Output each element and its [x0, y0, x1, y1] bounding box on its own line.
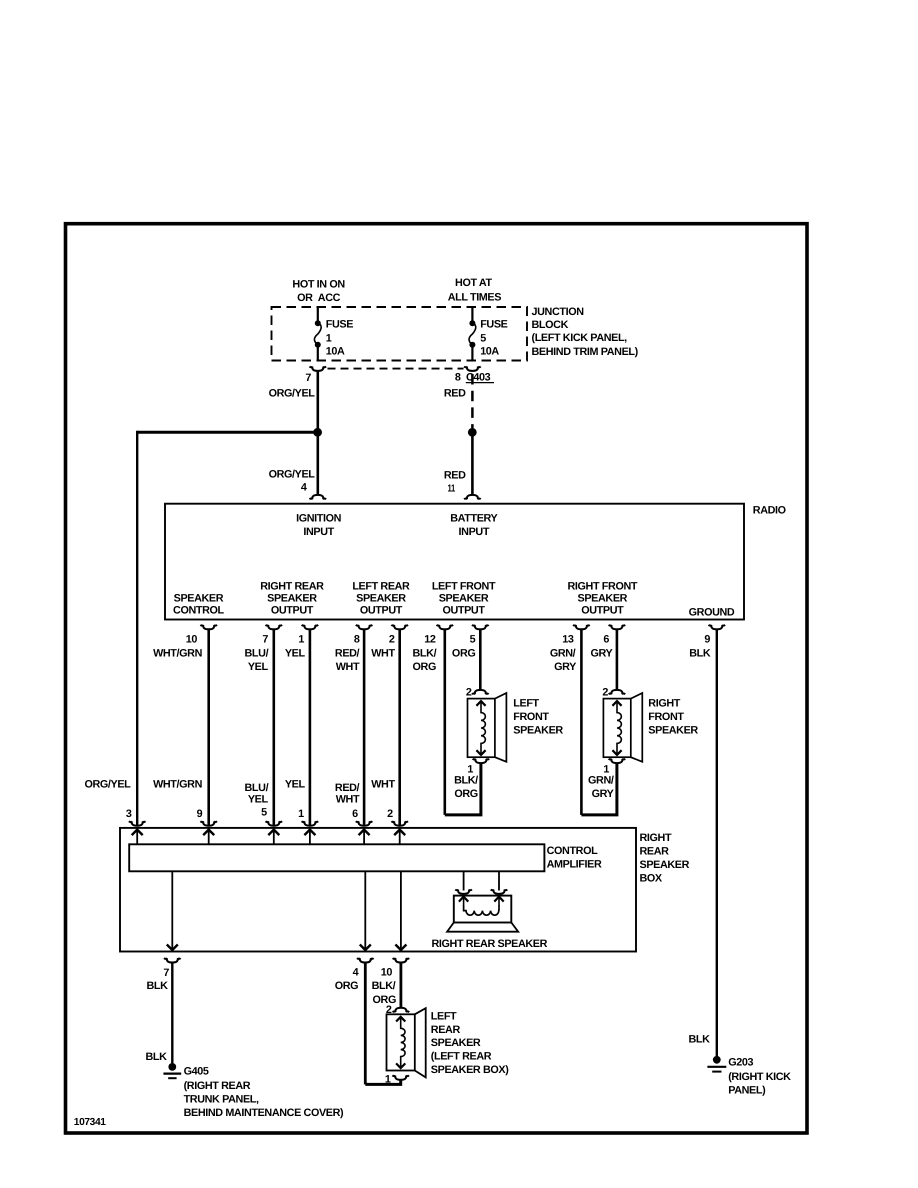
svg-text:OUTPUT: OUTPUT	[442, 605, 485, 617]
radio LEFT FRONT SPEAKER OUTPUT label	[432, 581, 496, 617]
label GRN/GRY speaker return	[588, 775, 615, 801]
label GRN/GRY pin13	[550, 647, 577, 673]
connector at radio pin 13	[573, 625, 590, 629]
connector at right front speaker pin 2	[609, 690, 626, 694]
radio pin 2 label	[389, 634, 395, 646]
connector C403 dashed link	[328, 368, 464, 370]
connector at radio pin 1	[302, 625, 319, 629]
svg-text:SPEAKER: SPEAKER	[431, 1037, 481, 1049]
left rear speaker LS4	[387, 1008, 426, 1077]
connector at right rear speaker right terminal	[491, 890, 508, 894]
svg-text:TRUNK PANEL,: TRUNK PANEL,	[184, 1094, 259, 1106]
svg-text:RED: RED	[444, 470, 466, 482]
svg-text:SPEAKER: SPEAKER	[356, 593, 406, 605]
label WHT upper	[371, 647, 395, 659]
connector at radio pin 8	[356, 625, 373, 629]
connector at left front speaker pin 2	[472, 690, 489, 694]
svg-text:5: 5	[480, 332, 486, 344]
arrow into amplifier at pin 1	[304, 830, 315, 845]
svg-text:BOX: BOX	[640, 872, 663, 884]
left rear speaker pin 2 label	[386, 1004, 392, 1016]
svg-text:RIGHT: RIGHT	[648, 698, 680, 710]
label ORG pin5	[452, 647, 475, 659]
control amplifier U1	[129, 844, 544, 871]
svg-text:5: 5	[470, 634, 476, 646]
wire amplifier to right rear speaker left terminal	[463, 871, 465, 890]
svg-text:2: 2	[387, 808, 393, 820]
svg-text:2: 2	[602, 686, 608, 698]
wire WHT/GRN radio pin 10 to amplifier pin 9	[207, 630, 210, 826]
svg-text:ORG/YEL: ORG/YEL	[269, 469, 316, 481]
svg-text:WHT: WHT	[336, 661, 360, 673]
radio GROUND label	[689, 606, 735, 618]
svg-text:WHT: WHT	[371, 647, 395, 659]
svg-text:SPEAKER: SPEAKER	[439, 593, 489, 605]
connector at radio pin 11	[464, 495, 481, 499]
label ORG/YEL upper	[269, 387, 316, 399]
junction node on ORG/YEL wire	[313, 428, 322, 437]
wire BLU/YEL radio pin 7 to amplifier pin 5	[272, 630, 275, 826]
box pin 4 label	[353, 967, 359, 979]
label YEL at amplifier pin 1	[285, 779, 306, 791]
wire fuse5 top stub	[471, 307, 473, 322]
svg-text:YEL: YEL	[248, 793, 269, 805]
left rear speaker pin 1 label	[385, 1073, 391, 1085]
svg-text:RIGHT REAR: RIGHT REAR	[260, 581, 324, 593]
svg-text:GRY: GRY	[590, 647, 613, 659]
arrow into amplifier at pin 5	[268, 830, 279, 845]
svg-text:OR ACC: OR ACC	[297, 292, 341, 304]
svg-text:BLOCK: BLOCK	[532, 319, 569, 331]
wire fuse5 bottom stub	[471, 345, 473, 361]
wire WHT radio pin 2 to amplifier pin 2	[398, 630, 401, 826]
svg-text:ORG: ORG	[452, 647, 475, 659]
label BLK/ORG speaker return	[454, 775, 478, 801]
svg-text:JUNCTION: JUNCTION	[532, 306, 585, 318]
svg-text:BEHIND MAINTENANCE COVER): BEHIND MAINTENANCE COVER)	[184, 1107, 344, 1119]
radio pin 13 label	[562, 634, 574, 646]
svg-text:INPUT: INPUT	[303, 526, 334, 538]
svg-text:SPEAKER: SPEAKER	[578, 593, 628, 605]
radio pin 9 label	[704, 634, 710, 646]
wire GRY radio pin 6 to right front speaker pin 2	[616, 630, 619, 690]
connector at radio pin 5	[472, 625, 489, 629]
svg-text:ORG: ORG	[413, 661, 436, 673]
svg-text:BLK/: BLK/	[413, 647, 437, 659]
connector at right front speaker pin 1	[609, 759, 626, 763]
svg-text:BLK: BLK	[688, 1033, 710, 1045]
connector at box pin 7	[164, 958, 181, 962]
svg-text:LEFT REAR: LEFT REAR	[352, 581, 410, 593]
svg-text:1: 1	[603, 763, 609, 775]
svg-text:YEL: YEL	[285, 779, 306, 791]
svg-text:OUTPUT: OUTPUT	[581, 605, 624, 617]
svg-text:BLU/: BLU/	[245, 782, 269, 794]
connector at right rear speaker left terminal	[455, 890, 472, 894]
connector at amplifier pin 5	[266, 821, 283, 825]
wire amplifier to right rear speaker right terminal	[498, 871, 500, 890]
svg-text:ORG/YEL: ORG/YEL	[84, 779, 131, 791]
net label HOT IN ON OR ACC	[292, 278, 345, 304]
svg-text:BLK/: BLK/	[372, 980, 396, 992]
fuse F1 value label	[326, 319, 353, 358]
svg-text:RADIO: RADIO	[753, 505, 786, 517]
box pin 10 label	[381, 967, 393, 979]
junction block label	[532, 306, 639, 358]
svg-text:GRN/: GRN/	[550, 647, 576, 659]
left rear speaker label	[431, 1010, 509, 1076]
svg-text:C403: C403	[466, 371, 491, 383]
svg-text:7: 7	[163, 967, 169, 979]
amplifier pin 5 label	[261, 807, 267, 819]
svg-text:6: 6	[603, 634, 609, 646]
label BLU/YEL upper	[245, 647, 269, 673]
svg-text:7: 7	[262, 634, 268, 646]
svg-text:G405: G405	[184, 1065, 209, 1077]
svg-text:SPEAKER: SPEAKER	[174, 592, 224, 604]
radio pin 7 label	[262, 634, 268, 646]
svg-text:(LEFT KICK PANEL,: (LEFT KICK PANEL,	[532, 332, 628, 344]
svg-text:ORG/YEL: ORG/YEL	[269, 387, 316, 399]
svg-text:OUTPUT: OUTPUT	[360, 605, 403, 617]
label RED upper	[444, 387, 466, 399]
wire fuse1 top stub	[317, 307, 319, 322]
connector at radio pin 2	[391, 625, 408, 629]
svg-text:BATTERY: BATTERY	[450, 512, 498, 524]
wire ORG radio pin 5 to left front speaker pin 2	[479, 630, 482, 690]
box pin 7 label	[163, 967, 169, 979]
svg-text:1: 1	[467, 763, 473, 775]
connector at left rear speaker pin 1	[392, 1075, 409, 1079]
left front speaker pin 1 label	[467, 763, 473, 775]
radio pin 10 label	[186, 634, 198, 646]
wire GRN/GRY return U to radio pin 13	[581, 764, 617, 815]
ground G203 label	[728, 1056, 791, 1096]
svg-text:PANEL): PANEL)	[728, 1085, 766, 1097]
radio IGNITION INPUT label	[296, 512, 342, 538]
radio pin 5 label	[470, 634, 476, 646]
right rear speaker label	[432, 938, 548, 950]
svg-text:4: 4	[353, 967, 359, 979]
right rear speaker box	[120, 828, 636, 952]
connector at left front speaker pin 1	[473, 759, 490, 763]
label WHT/GRN upper	[153, 647, 202, 659]
label YEL upper	[285, 647, 306, 659]
wire ORG/YEL branch horizontal	[137, 431, 317, 434]
connector at box pin 4	[357, 958, 374, 962]
svg-text:ORG: ORG	[335, 980, 358, 992]
svg-text:SPEAKER: SPEAKER	[513, 724, 563, 736]
connector at amplifier pin 2	[391, 821, 408, 825]
amplifier pin 1 label	[298, 808, 304, 820]
svg-text:10A: 10A	[326, 346, 345, 358]
pin 7 label	[305, 372, 311, 384]
connector at radio pin 9	[709, 625, 726, 629]
radio pin 4 label	[301, 482, 307, 494]
svg-text:GRN/: GRN/	[588, 775, 614, 787]
arrow into amplifier at pin 9	[203, 830, 214, 845]
svg-text:RIGHT: RIGHT	[640, 832, 672, 844]
svg-text:10: 10	[186, 634, 198, 646]
right front speaker pin 1 label	[603, 763, 609, 775]
wire fuse1 bottom stub	[317, 345, 319, 361]
svg-text:7: 7	[305, 372, 311, 384]
label BLK above G405	[145, 1051, 167, 1063]
connector label C403	[466, 371, 494, 383]
label BLK/ORG pin12	[413, 647, 437, 673]
svg-text:1: 1	[298, 808, 304, 820]
svg-text:HOT IN ON: HOT IN ON	[292, 278, 345, 290]
left front speaker LS1	[468, 693, 507, 762]
svg-text:LEFT: LEFT	[513, 698, 539, 710]
connector at box pin 10	[393, 958, 410, 962]
junction block (dashed box)	[272, 307, 528, 361]
svg-text:LEFT FRONT: LEFT FRONT	[432, 581, 496, 593]
pin 8 label	[455, 371, 461, 383]
svg-text:8: 8	[354, 634, 360, 646]
label BLU/YEL at amplifier pin 5	[245, 782, 269, 806]
svg-text:G203: G203	[728, 1056, 753, 1068]
svg-text:ALL TIMES: ALL TIMES	[448, 292, 502, 304]
svg-text:RED: RED	[444, 387, 466, 399]
svg-text:GRY: GRY	[554, 661, 577, 673]
svg-text:ORG: ORG	[373, 994, 396, 1006]
svg-text:OUTPUT: OUTPUT	[271, 605, 314, 617]
radio BATTERY INPUT label	[450, 512, 498, 538]
junction node on RED wire	[468, 428, 477, 437]
svg-text:GROUND: GROUND	[689, 606, 735, 618]
svg-text:BLK: BLK	[689, 647, 711, 659]
arrow from amplifier to box pin 7	[167, 871, 178, 950]
svg-text:BEHIND TRIM PANEL): BEHIND TRIM PANEL)	[532, 346, 639, 358]
fuse F1 10A	[314, 320, 321, 348]
label WHT/GRN at amplifier pin 9	[153, 779, 202, 791]
label RED/WHT upper	[335, 647, 360, 673]
wire RED/WHT radio pin 8 to amplifier pin 6	[363, 630, 366, 826]
svg-text:INPUT: INPUT	[459, 526, 490, 538]
svg-text:SPEAKER: SPEAKER	[648, 724, 698, 736]
svg-text:107341: 107341	[74, 1117, 106, 1128]
connector at amplifier pin 1	[302, 821, 319, 825]
svg-text:RED/: RED/	[335, 647, 360, 659]
svg-text:11: 11	[448, 483, 456, 494]
radio pin 6 label	[603, 634, 609, 646]
label GRY pin6	[590, 647, 613, 659]
radio label	[753, 505, 786, 517]
net label HOT AT ALL TIMES	[448, 277, 502, 303]
connector at left rear speaker pin 2	[393, 1008, 410, 1012]
wire BLK/ORG box pin 10 to left rear speaker pin 2	[399, 963, 402, 1007]
arrow from amplifier to box pin 4	[360, 871, 371, 950]
wire RED from junction to radio pin 11	[471, 432, 474, 494]
ground G405 label	[184, 1065, 344, 1119]
amplifier pin 2 label	[387, 808, 393, 820]
wire GRN/GRY radio pin 13 down	[580, 630, 583, 815]
svg-text:SPEAKER BOX): SPEAKER BOX)	[431, 1064, 509, 1076]
svg-text:9: 9	[197, 808, 203, 820]
svg-text:13: 13	[562, 634, 574, 646]
svg-text:WHT/GRN: WHT/GRN	[153, 647, 202, 659]
svg-text:5: 5	[261, 807, 267, 819]
amplifier pin 6 label	[352, 808, 358, 820]
radio box	[165, 504, 744, 620]
svg-text:9: 9	[704, 634, 710, 646]
svg-text:RIGHT REAR SPEAKER: RIGHT REAR SPEAKER	[432, 938, 548, 950]
radio RIGHT FRONT SPEAKER OUTPUT label	[568, 581, 638, 617]
svg-text:FUSE: FUSE	[480, 319, 507, 331]
label RED lower	[444, 470, 466, 482]
svg-text:2: 2	[466, 686, 472, 698]
control amplifier label	[547, 845, 602, 871]
right rear speaker box label	[640, 832, 690, 884]
label BLK lower	[688, 1033, 710, 1045]
label ORG/YEL lower	[269, 469, 316, 481]
amplifier pin 9 label	[197, 808, 203, 820]
ground G203	[707, 1056, 726, 1072]
label BLK at pin 7	[146, 980, 168, 992]
connector at radio pin 12	[437, 625, 454, 629]
fuse F5 value label	[480, 319, 507, 358]
svg-text:HOT AT: HOT AT	[455, 277, 492, 289]
arrow into amplifier at pin 3	[132, 830, 143, 845]
svg-text:12: 12	[424, 634, 436, 646]
svg-text:(RIGHT KICK: (RIGHT KICK	[728, 1071, 791, 1083]
svg-text:SPEAKER: SPEAKER	[267, 593, 317, 605]
connector at radio pin 10	[200, 625, 217, 629]
wire ORG box pin 4 down	[364, 963, 367, 1084]
connector at radio pin 6	[609, 625, 626, 629]
left front speaker pin 2 label	[466, 686, 472, 698]
svg-text:LEFT: LEFT	[431, 1010, 457, 1022]
right front speaker pin 2 label	[602, 686, 608, 698]
wire BLK radio pin 9 to ground G203	[716, 630, 718, 1056]
connector at amplifier pin 3	[129, 821, 146, 825]
svg-text:WHT: WHT	[371, 779, 395, 791]
svg-text:(LEFT REAR: (LEFT REAR	[431, 1051, 492, 1063]
connector pin 7 of junction block	[310, 367, 327, 371]
svg-text:RED/: RED/	[335, 782, 360, 794]
connector at radio pin 4	[310, 495, 327, 499]
svg-text:BLK: BLK	[146, 980, 168, 992]
svg-text:WHT/GRN: WHT/GRN	[153, 779, 202, 791]
radio pin 12 label	[424, 634, 436, 646]
radio pin 11 label	[448, 483, 456, 494]
label ORG/YEL at amplifier pin 3	[84, 779, 131, 791]
wire ORG/YEL from C403 pin 7 down to junction	[316, 372, 319, 430]
radio RIGHT REAR SPEAKER OUTPUT label	[260, 581, 324, 617]
svg-text:3: 3	[126, 808, 132, 820]
svg-text:BLK: BLK	[145, 1051, 167, 1063]
svg-text:8: 8	[455, 371, 461, 383]
connector at amplifier pin 9	[200, 821, 217, 825]
arrow into amplifier at pin 6	[359, 830, 370, 845]
connector pin 8 of junction block	[464, 367, 481, 371]
right rear speaker LS3	[447, 896, 518, 932]
svg-text:BLK/: BLK/	[454, 775, 478, 787]
svg-text:ORG: ORG	[454, 788, 477, 800]
svg-text:IGNITION: IGNITION	[296, 512, 342, 524]
svg-text:4: 4	[301, 482, 307, 494]
svg-text:REAR: REAR	[431, 1024, 461, 1036]
svg-text:AMPLIFIER: AMPLIFIER	[547, 858, 602, 870]
radio SPEAKER CONTROL label	[173, 592, 225, 616]
svg-text:(RIGHT REAR: (RIGHT REAR	[184, 1080, 251, 1092]
svg-text:FUSE: FUSE	[326, 319, 353, 331]
svg-text:YEL: YEL	[285, 647, 306, 659]
wire ORG/YEL from junction to radio pin 4	[316, 432, 319, 494]
radio pin 8 label	[354, 634, 360, 646]
svg-text:WHT: WHT	[336, 793, 360, 805]
connector at radio pin 7	[266, 625, 283, 629]
svg-text:FRONT: FRONT	[513, 711, 549, 723]
svg-text:BLU/: BLU/	[245, 647, 269, 659]
ground G405	[163, 1063, 181, 1078]
svg-text:REAR: REAR	[640, 846, 670, 858]
label RED/WHT at amplifier pin 6	[335, 782, 360, 806]
svg-text:CONTROL: CONTROL	[547, 845, 599, 857]
svg-text:10: 10	[381, 967, 393, 979]
fuse F5 10A	[469, 320, 476, 348]
left front speaker label	[513, 698, 563, 737]
radio pin 1 label	[298, 634, 304, 646]
diagram number 107341	[74, 1117, 106, 1128]
svg-text:CONTROL: CONTROL	[173, 605, 225, 617]
svg-text:6: 6	[352, 808, 358, 820]
wire BLK box pin 7 to ground G405	[171, 963, 173, 1063]
wire BLK/ORG radio pin 12 down	[443, 630, 446, 815]
wire YEL radio pin 1 to amplifier pin 1	[309, 630, 312, 826]
right front speaker label	[648, 698, 698, 737]
radio LEFT REAR SPEAKER OUTPUT label	[352, 581, 410, 617]
right front speaker LS2	[603, 693, 642, 762]
wire RED dashed from C403 pin 8	[471, 374, 474, 428]
svg-text:1: 1	[326, 332, 332, 344]
label WHT at amplifier pin 2	[371, 779, 395, 791]
svg-text:SPEAKER: SPEAKER	[640, 859, 690, 871]
label BLK upper	[689, 647, 711, 659]
wire BLK/ORG return U to radio pin 12	[445, 764, 481, 815]
arrow into amplifier at pin 2	[394, 830, 405, 845]
connector at amplifier pin 6	[356, 821, 373, 825]
svg-text:2: 2	[389, 634, 395, 646]
svg-text:RIGHT FRONT: RIGHT FRONT	[568, 581, 638, 593]
arrow from amplifier to box pin 10	[395, 871, 406, 950]
wire ORG return to left rear speaker pin 1	[365, 1080, 400, 1084]
svg-text:1: 1	[298, 634, 304, 646]
svg-text:FRONT: FRONT	[648, 711, 684, 723]
label BLK/ORG at pin 10	[372, 980, 396, 1006]
label ORG at pin 4	[335, 980, 358, 992]
wire ORG/YEL branch down left side to amplifier pin 3	[136, 431, 138, 826]
svg-text:10A: 10A	[480, 346, 499, 358]
svg-text:GRY: GRY	[592, 788, 615, 800]
amplifier pin 3 label	[126, 808, 132, 820]
svg-text:YEL: YEL	[248, 661, 269, 673]
